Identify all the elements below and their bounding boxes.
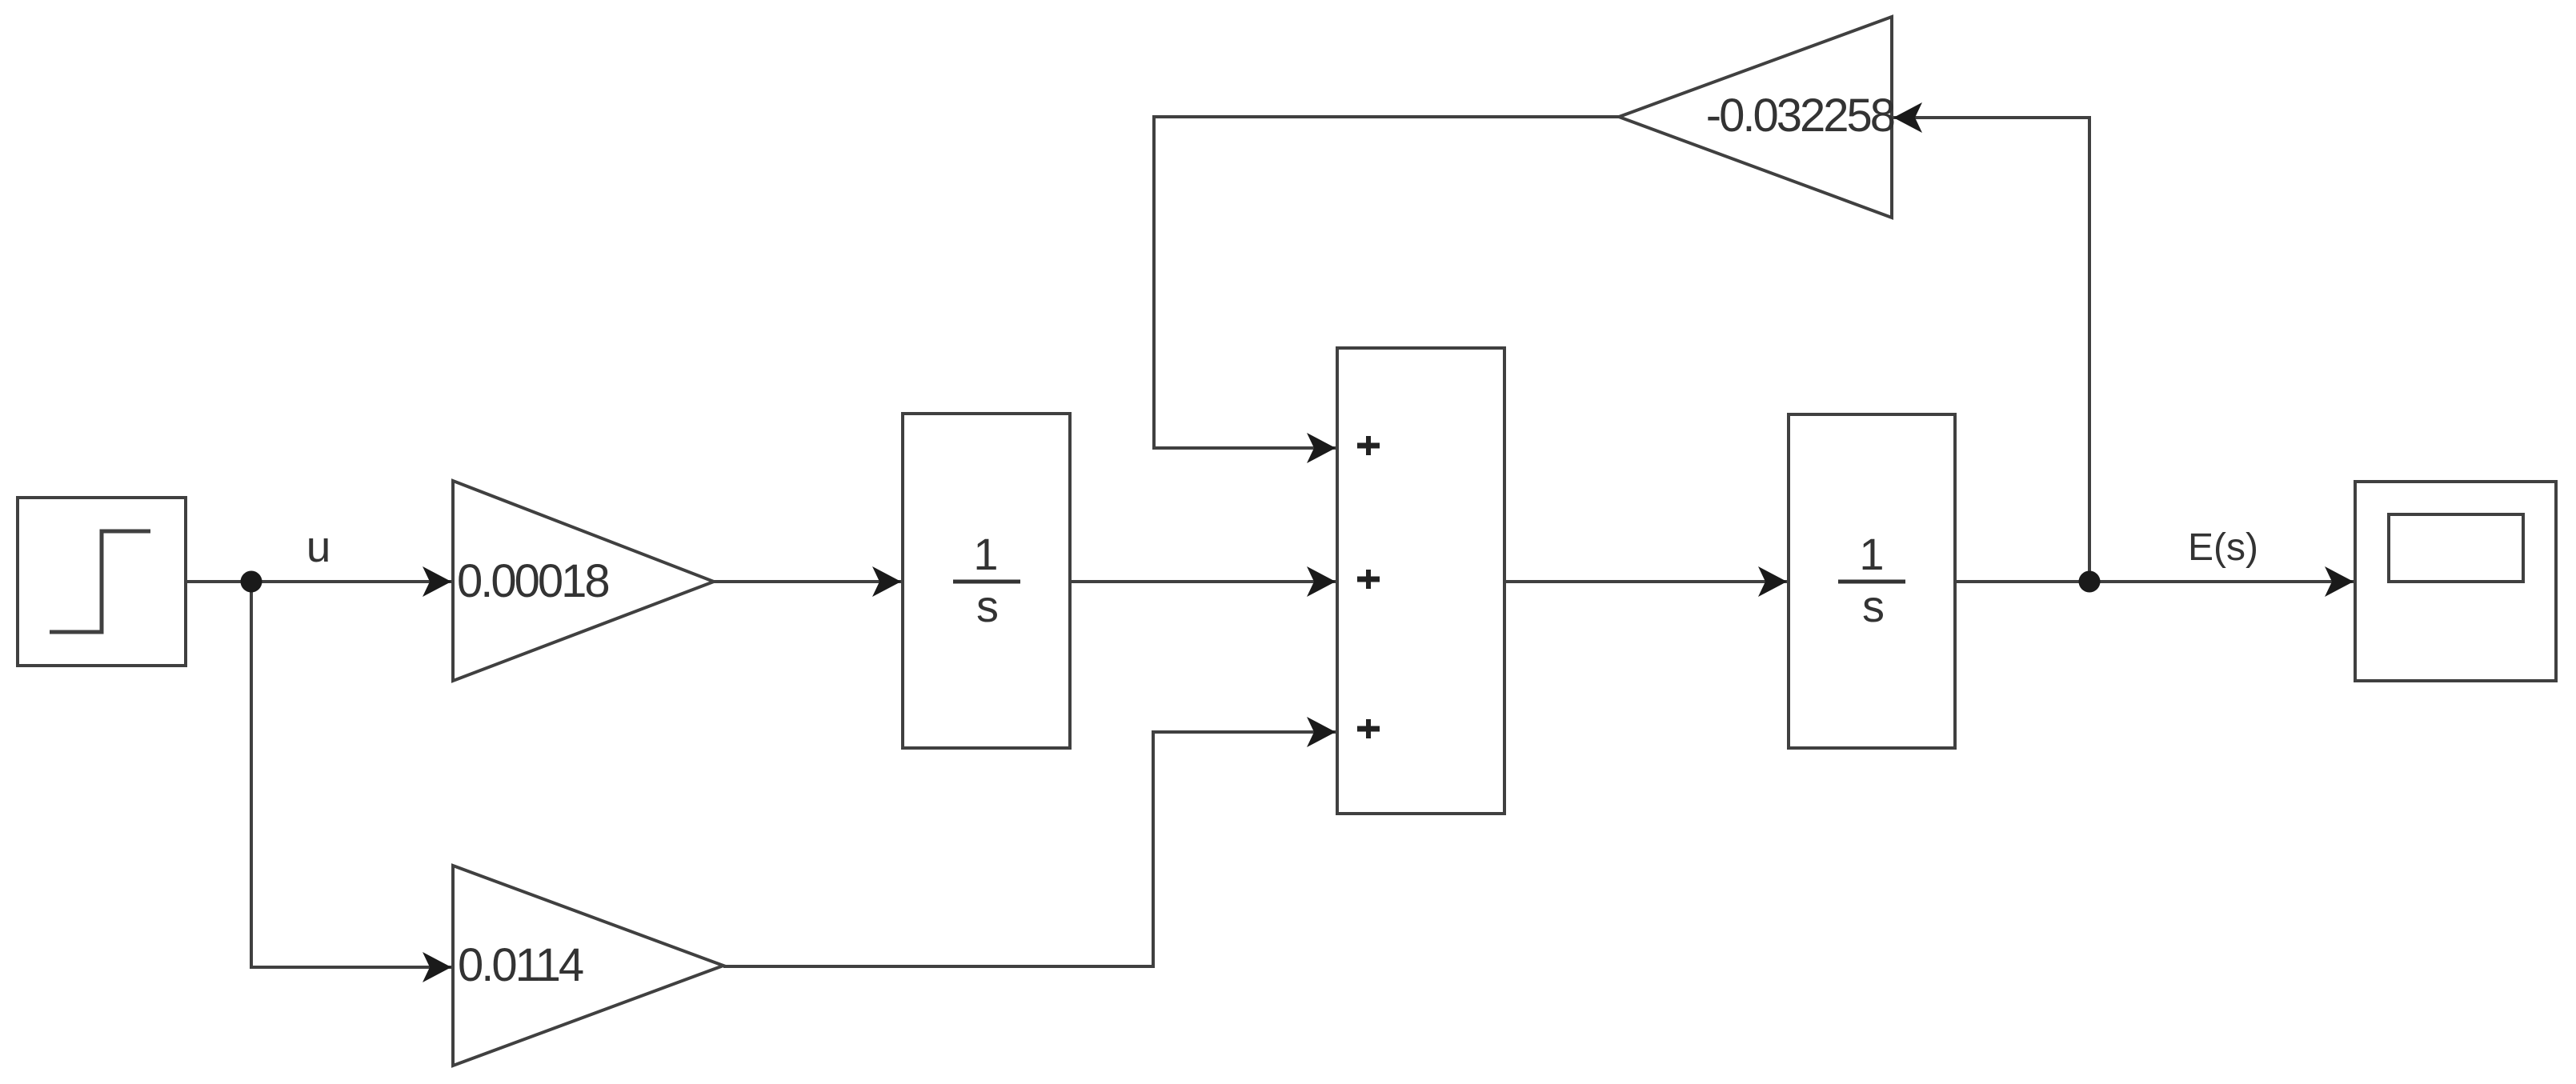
svg-text:1: 1	[973, 529, 998, 579]
svg-text:E(s): E(s)	[2188, 526, 2258, 569]
svg-text:u: u	[306, 522, 331, 571]
svg-text:s: s	[976, 581, 999, 631]
svg-text:0.0114: 0.0114	[458, 939, 583, 991]
svg-text:-0.032258: -0.032258	[1706, 90, 1894, 142]
svg-text:1: 1	[1859, 529, 1884, 579]
svg-text:s: s	[1862, 581, 1885, 631]
svg-text:0.00018: 0.00018	[457, 555, 608, 607]
